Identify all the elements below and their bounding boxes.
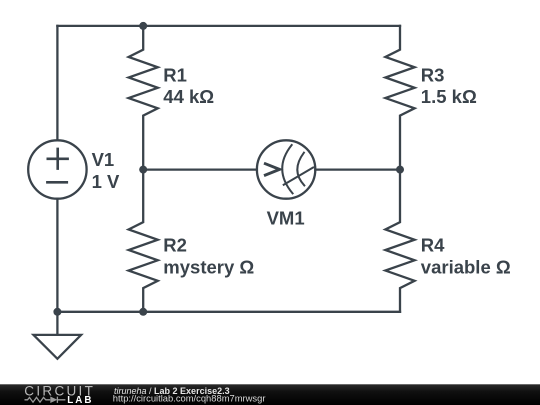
svg-text:1.5 kΩ: 1.5 kΩ <box>421 86 477 107</box>
svg-text:mystery Ω: mystery Ω <box>163 257 254 278</box>
svg-text:R4: R4 <box>421 234 445 255</box>
node top junction <box>139 22 147 30</box>
wire middle right <box>315 168 400 170</box>
node middle left junction <box>139 166 147 174</box>
node ground junction <box>53 308 61 316</box>
resistor R1 <box>129 26 158 170</box>
V1 minus sign <box>47 181 66 184</box>
VM1 needle <box>284 168 313 185</box>
VM1 gauge arc small <box>297 153 304 186</box>
logo resistor-diode glyph <box>25 397 66 403</box>
svg-text:http://circuitlab.com/cqh88m7m: http://circuitlab.com/cqh88m7mrwsgr <box>113 393 266 404</box>
svg-text:R1: R1 <box>163 64 187 85</box>
node bottom junction <box>139 308 147 316</box>
svg-text:V1: V1 <box>92 149 115 170</box>
svg-text:LAB: LAB <box>67 395 93 405</box>
VM1 arrow <box>264 163 280 175</box>
voltmeter VM1 <box>257 140 315 198</box>
resistor R4 <box>385 170 414 312</box>
ground <box>34 312 82 359</box>
resistor R2 <box>129 170 158 312</box>
svg-text:R2: R2 <box>163 234 187 255</box>
V1 plus sign <box>48 149 68 169</box>
voltage source V1 <box>28 140 86 198</box>
wire bottom <box>57 311 400 313</box>
node middle right junction <box>396 166 404 174</box>
resistor R3 <box>385 26 414 170</box>
wire left <box>56 26 58 312</box>
svg-text:variable Ω: variable Ω <box>421 257 511 278</box>
svg-text:1 V: 1 V <box>92 171 120 192</box>
wire top <box>57 25 400 27</box>
svg-text:R3: R3 <box>421 64 445 85</box>
svg-text:44 kΩ: 44 kΩ <box>163 86 214 107</box>
wire middle left <box>143 168 257 170</box>
svg-text:VM1: VM1 <box>267 207 305 228</box>
VM1 gauge arc big <box>282 145 292 193</box>
